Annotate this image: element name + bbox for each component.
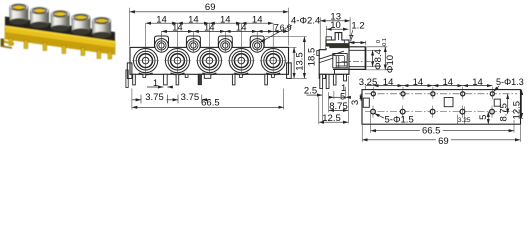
svg-text:5-Φ1.3: 5-Φ1.3 — [496, 77, 524, 87]
small post P3 circles — [219, 39, 233, 53]
svg-text:14: 14 — [443, 77, 454, 88]
hole Phi1.3 #3 — [431, 92, 435, 96]
dimension 69 (front overall) — [130, 11, 289, 13]
svg-text:1.2: 1.2 — [351, 20, 364, 31]
dimension 12.5 (side) — [319, 121, 349, 123]
dimension 8.75 (side) — [329, 109, 349, 111]
hole Phi1.5 #3 — [430, 109, 435, 114]
side view: barrel face — [365, 47, 367, 70]
svg-text:14: 14 — [156, 14, 167, 25]
svg-text:3: 3 — [350, 100, 361, 105]
inner dimension 5 vertical — [487, 112, 489, 125]
svg-text:14: 14 — [472, 77, 483, 88]
dimension 18.5 — [303, 37, 305, 79]
dimension 69 (bottom overall) — [362, 139, 436, 141]
svg-text:12.5: 12.5 — [512, 101, 523, 120]
pin 6 front view — [265, 74, 268, 85]
bottom view: centerline bottom row — [365, 111, 517, 113]
front view: left mounting lip — [127, 63, 132, 79]
svg-text:14: 14 — [413, 77, 424, 88]
side view pin 3 — [333, 74, 336, 85]
hole Phi1.5 #2 — [400, 109, 405, 114]
centerline small post — [161, 31, 163, 52]
svg-text:8.75: 8.75 — [329, 101, 348, 112]
front view: small post boss 3 — [218, 36, 232, 47]
dimension 13.5 (right of front view) — [293, 47, 295, 78]
front view: small post boss 4 — [250, 36, 264, 47]
svg-text:14: 14 — [172, 23, 183, 34]
hole Phi1.3 #4 — [461, 92, 465, 96]
front view: right mounting lip — [287, 63, 292, 79]
photo of yellow 5-port RCA jack bank — [1, 4, 116, 59]
side view: clip inner lines — [336, 61, 347, 63]
hole Phi1.5 #1 — [371, 109, 376, 114]
front view: body outline — [130, 47, 289, 74]
svg-text:3.25: 3.25 — [359, 77, 378, 88]
side view: clip foot step — [335, 69, 350, 74]
svg-text:Φ10: Φ10 — [385, 55, 396, 73]
pin 3 front view — [176, 74, 179, 85]
centerline small post — [256, 31, 258, 52]
svg-text:12.5: 12.5 — [322, 113, 341, 124]
svg-text:14: 14 — [188, 14, 199, 25]
bottom view: right pad — [494, 99, 500, 106]
svg-text:14: 14 — [236, 23, 247, 34]
side view: dark flange band — [326, 43, 349, 48]
centerline small post — [224, 31, 226, 52]
dimension 66.5 (front) — [132, 106, 284, 108]
svg-text:5: 5 — [478, 115, 489, 120]
svg-text:Φ8.4: Φ8.4 — [373, 49, 384, 70]
dimension 3.75 left — [140, 95, 142, 104]
centerline big jack — [177, 23, 179, 73]
svg-text:-0.1: -0.1 — [382, 38, 388, 47]
centerline small post — [192, 31, 194, 52]
front view: left end pin — [126, 70, 128, 88]
svg-text:3.75: 3.75 — [181, 92, 200, 103]
side view: front face inner tick — [343, 40, 345, 43]
svg-text:66.5: 66.5 — [201, 97, 220, 108]
small foot nub — [185, 74, 188, 77]
small post P1 circles — [155, 39, 169, 53]
small post P2 circles — [187, 39, 201, 53]
bottom view: center pad — [444, 98, 453, 107]
svg-text:69: 69 — [438, 136, 449, 147]
dimension 13 (side depth) — [320, 20, 350, 22]
side view: barrel centerline — [342, 60, 375, 62]
centerline big jack — [208, 23, 210, 73]
svg-text:14: 14 — [383, 77, 394, 88]
dimension Phi8.4 with tolerance — [372, 50, 374, 66]
side view: left face bump — [317, 51, 319, 56]
small foot nub — [240, 74, 243, 77]
side view: barrel outer — [349, 46, 366, 48]
side view: contact spring diagonal — [319, 51, 344, 59]
dimension 12.5 (bottom right) — [521, 90, 523, 119]
side view: clip detail — [333, 54, 347, 68]
dimension 10 — [326, 28, 348, 30]
pin 4 front view — [198, 74, 201, 84]
centerline big jack — [272, 23, 274, 73]
svg-text:8.75: 8.75 — [498, 103, 509, 122]
side view pin 4 — [344, 74, 347, 81]
side view pin 1 — [320, 74, 323, 88]
svg-text:5-Φ1.5: 5-Φ1.5 — [385, 114, 414, 125]
dimension Phi10 — [384, 47, 386, 70]
dimension row 14x4 (jack pitch) — [146, 22, 178, 24]
centerline big jack — [145, 23, 147, 73]
bottom view: left pad — [363, 98, 369, 107]
svg-text:13.5: 13.5 — [295, 52, 306, 71]
svg-text:69: 69 — [205, 2, 216, 13]
svg-text:3.25: 3.25 — [458, 117, 471, 124]
dimension 5 (side) — [334, 96, 346, 98]
pin 5 front view — [232, 74, 235, 85]
side view: top-left step — [326, 37, 332, 40]
svg-text:14: 14 — [204, 23, 215, 34]
svg-text:18.5: 18.5 — [307, 48, 318, 67]
RCA jack J1 front circles — [134, 49, 158, 73]
svg-text:14: 14 — [252, 14, 263, 25]
pin 2 front view — [164, 74, 168, 85]
side view pin 2 — [326, 74, 329, 88]
pin 1 front view — [133, 74, 136, 85]
center tab below body — [204, 74, 211, 78]
svg-text:7: 7 — [274, 23, 279, 34]
hole Phi1.3 #1 — [371, 92, 375, 96]
bottom top dim row 3.25 + 14x4 — [366, 85, 374, 87]
dimension 66.5 (bottom) — [371, 130, 514, 132]
svg-text:3.75: 3.75 — [145, 92, 164, 103]
side view: barrel bore lines — [349, 49, 366, 51]
svg-text:10: 10 — [330, 20, 341, 31]
bottom view: outline — [362, 90, 521, 125]
small foot nub — [272, 74, 275, 77]
side view: body outline — [319, 33, 349, 75]
RCA jack J4 front circles — [229, 49, 253, 73]
centerline big jack — [240, 23, 242, 73]
dimension row 14x3 + 7 + 6.9 (post pitch) — [162, 30, 194, 32]
front view: small post boss 2 — [186, 36, 200, 47]
svg-text:4-Φ2.4: 4-Φ2.4 — [291, 15, 320, 26]
dimension 3 (bottom view rows) — [360, 94, 362, 101]
dimension 7 (barrel length) — [349, 42, 366, 44]
side view: boss tab inner line — [338, 33, 340, 40]
hole Phi1.3 #5 — [490, 92, 494, 96]
side view: left bottom lip — [319, 74, 325, 78]
RCA jack J5 front circles — [261, 49, 285, 73]
dimension 3.75 right — [177, 95, 179, 104]
dimension 8.75 (bottom right) — [507, 94, 509, 114]
small foot nub — [143, 74, 146, 77]
hole Phi1.5 #4 — [460, 109, 465, 114]
RCA jack J2 front circles — [165, 49, 189, 73]
front view: small post boss 1 — [155, 36, 169, 47]
svg-text:7: 7 — [349, 33, 354, 44]
svg-text:14: 14 — [220, 14, 231, 25]
hole Phi1.3 #2 — [401, 92, 405, 96]
small post P4 circles — [250, 39, 264, 53]
hole Phi1.5 #5 — [490, 109, 495, 114]
RCA jack J3 front circles — [197, 49, 221, 73]
bottom view: centerline top row — [365, 93, 517, 95]
